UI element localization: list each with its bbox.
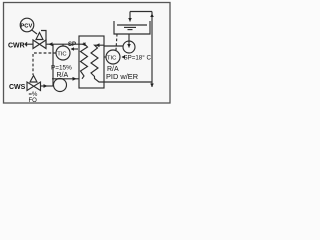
valve actuator (CWR regulator) [36,33,43,40]
coil right (process) [91,45,104,82]
wire recirculation branch [52,44,54,86]
pump P1 (coolant circulation) [54,79,67,92]
wire top pipe valve to exchanger [46,43,79,45]
wire riser [151,12,153,88]
flow arrow into right coil [96,43,100,47]
instrument PCV [20,18,34,32]
wire SP arrow into right TIC [122,56,125,58]
svg-text:TIC: TIC [57,52,66,58]
wire dashed sensor line tank to TIC2 [116,34,117,50]
valve actuator (CWS) [30,76,37,83]
heat exchanger E1 shell [79,36,104,88]
flow arrow right into exchanger [73,77,77,81]
valve V2 (CWS) [27,82,41,91]
flow arrow out of left coil [82,42,86,46]
wire PCV stem [32,30,38,34]
border frame [4,3,171,104]
valve V1 (CWR) [33,40,46,49]
svg-text:R/A: R/A [57,72,69,79]
svg-text:P=15%: P=15% [51,65,72,72]
svg-text:CWR: CWR [8,43,25,50]
labels [8,43,26,92]
wire top return pipe [130,11,152,13]
flow arrow right on CWS pipe [44,84,48,88]
svg-text:SP=18° C: SP=18° C [124,55,152,62]
wire CWS pipe to pump [41,85,55,87]
coil left (coolant) [80,44,88,79]
background [0,0,175,107]
tank T1 (open, with level) [114,21,150,34]
wire inlet into tank [129,12,131,22]
svg-text:TIC: TIC [107,56,116,62]
pressure sensing line [41,31,46,44]
svg-text:FO: FO [29,98,38,104]
wire dashed cascade output to CWS valve [33,53,56,75]
svg-text:CWS: CWS [9,84,26,91]
liquid level line [117,24,147,26]
wire SP arrow into left TIC [72,48,79,50]
wire pump2 discharge to exchanger [104,45,123,47]
wire CWR arrow [27,43,33,45]
controller TIC2 (process) [106,50,120,64]
svg-text:PCV: PCV [20,23,32,29]
svg-text:SP: SP [68,42,76,48]
wire exchanger outlet to riser [104,81,152,83]
flow arrow left on top pipe [49,42,53,46]
pump P2 (process circulation) [123,41,135,53]
controller TIC (coolant) [56,46,70,60]
svg-text:PID w/ER: PID w/ER [106,72,138,81]
